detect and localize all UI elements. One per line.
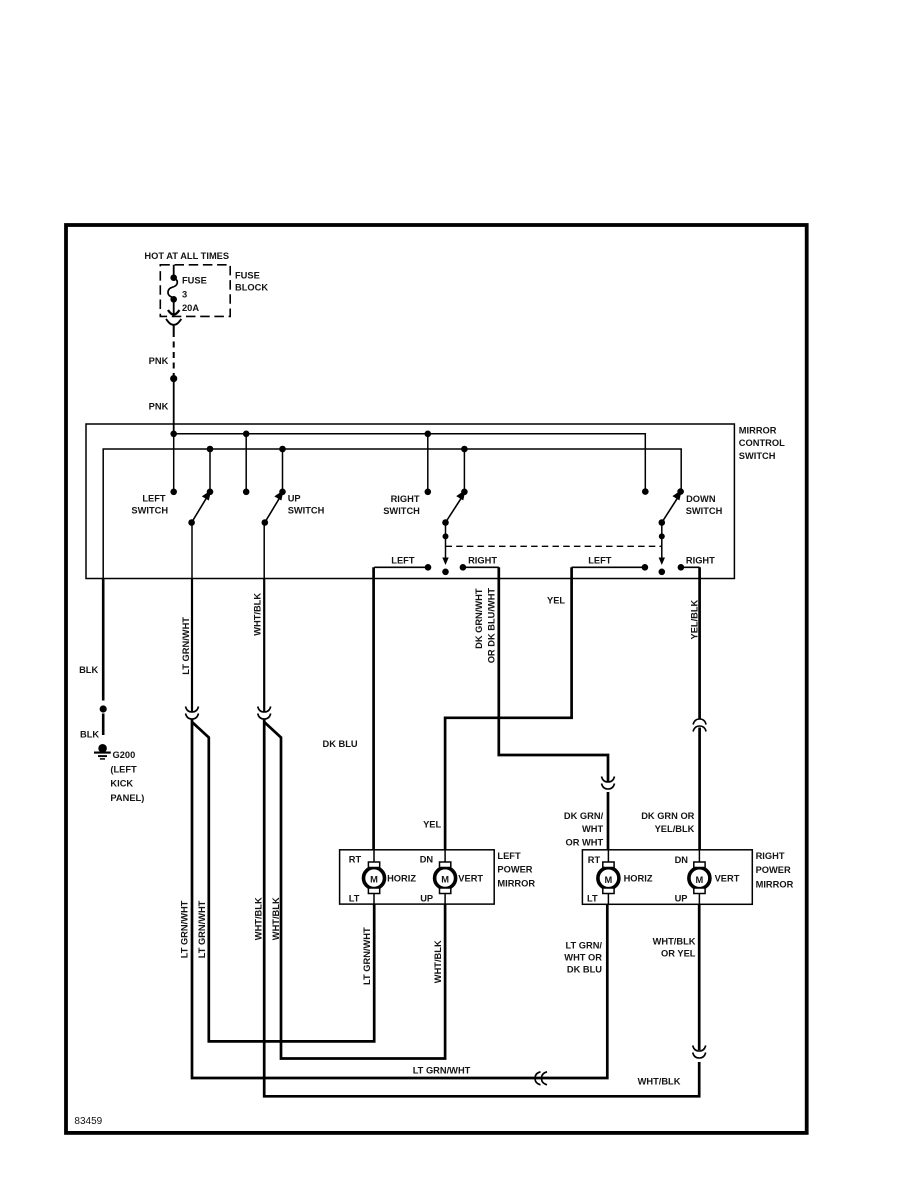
svg-text:WHT OR: WHT OR bbox=[564, 953, 602, 963]
svg-text:M: M bbox=[605, 875, 613, 885]
svg-text:LEFT: LEFT bbox=[588, 556, 612, 566]
svg-text:VERT: VERT bbox=[458, 873, 483, 883]
svg-text:BLK: BLK bbox=[80, 730, 99, 740]
svg-text:LT GRN/WHT: LT GRN/WHT bbox=[362, 927, 372, 985]
svg-text:LEFT: LEFT bbox=[391, 556, 415, 566]
svg-text:G200: G200 bbox=[113, 750, 136, 760]
svg-text:RIGHT: RIGHT bbox=[391, 494, 420, 504]
svg-text:DK GRN OR: DK GRN OR bbox=[641, 811, 694, 821]
svg-text:PNK: PNK bbox=[149, 356, 169, 366]
svg-text:YEL: YEL bbox=[547, 595, 565, 605]
svg-text:BLOCK: BLOCK bbox=[235, 283, 268, 293]
svg-text:(LEFT: (LEFT bbox=[110, 765, 137, 775]
svg-text:WHT: WHT bbox=[582, 824, 603, 834]
svg-text:WHT/BLK: WHT/BLK bbox=[433, 940, 443, 983]
svg-text:LT: LT bbox=[349, 893, 360, 903]
svg-text:RT: RT bbox=[588, 855, 601, 865]
svg-text:DK BLU: DK BLU bbox=[323, 739, 358, 749]
svg-text:WHT/BLK: WHT/BLK bbox=[254, 897, 264, 940]
svg-text:UP: UP bbox=[288, 493, 301, 503]
svg-text:LEFT: LEFT bbox=[142, 493, 166, 503]
svg-text:M: M bbox=[441, 875, 449, 885]
svg-text:DN: DN bbox=[675, 855, 689, 865]
svg-text:OR YEL: OR YEL bbox=[661, 949, 696, 959]
svg-text:DOWN: DOWN bbox=[686, 494, 716, 504]
svg-text:SWITCH: SWITCH bbox=[131, 506, 168, 516]
svg-text:20A: 20A bbox=[182, 303, 199, 313]
svg-text:MIRROR: MIRROR bbox=[739, 425, 777, 435]
svg-text:YEL/BLK: YEL/BLK bbox=[690, 599, 700, 639]
svg-text:LT: LT bbox=[587, 894, 598, 904]
svg-text:MIRROR: MIRROR bbox=[497, 878, 535, 888]
svg-text:M: M bbox=[370, 875, 378, 885]
svg-text:DK GRN/: DK GRN/ bbox=[564, 811, 604, 821]
svg-text:DK BLU: DK BLU bbox=[567, 965, 602, 975]
svg-text:VERT: VERT bbox=[715, 874, 740, 884]
svg-text:RIGHT: RIGHT bbox=[468, 556, 497, 566]
svg-text:POWER: POWER bbox=[497, 865, 532, 875]
svg-text:CONTROL: CONTROL bbox=[739, 438, 785, 448]
svg-text:LT GRN/WHT: LT GRN/WHT bbox=[181, 617, 191, 675]
svg-text:RT: RT bbox=[349, 855, 362, 865]
svg-text:OR WHT: OR WHT bbox=[565, 837, 603, 847]
svg-text:DK GRN/WHT: DK GRN/WHT bbox=[474, 588, 484, 649]
svg-text:SWITCH: SWITCH bbox=[288, 506, 325, 516]
svg-text:LT GRN/WHT: LT GRN/WHT bbox=[180, 900, 190, 958]
svg-text:YEL/BLK: YEL/BLK bbox=[655, 824, 695, 834]
svg-text:POWER: POWER bbox=[756, 865, 791, 875]
svg-text:RIGHT: RIGHT bbox=[756, 851, 785, 861]
svg-text:LT GRN/: LT GRN/ bbox=[566, 941, 603, 951]
svg-text:KICK: KICK bbox=[110, 779, 133, 789]
svg-text:RIGHT: RIGHT bbox=[686, 556, 715, 566]
svg-text:UP: UP bbox=[420, 893, 433, 903]
svg-text:WHT/BLK: WHT/BLK bbox=[271, 897, 281, 940]
svg-text:LT GRN/WHT: LT GRN/WHT bbox=[197, 900, 207, 958]
svg-text:BLK: BLK bbox=[79, 665, 98, 675]
svg-text:M: M bbox=[696, 875, 704, 885]
svg-text:LT GRN/WHT: LT GRN/WHT bbox=[413, 1066, 471, 1076]
svg-text:FUSE: FUSE bbox=[235, 270, 260, 280]
svg-text:SWITCH: SWITCH bbox=[383, 506, 420, 516]
svg-text:83459: 83459 bbox=[74, 1116, 102, 1127]
svg-text:FUSE: FUSE bbox=[182, 275, 207, 285]
svg-text:OR DK BLU/WHT: OR DK BLU/WHT bbox=[487, 588, 497, 664]
svg-text:YEL: YEL bbox=[423, 820, 441, 830]
svg-text:SWITCH: SWITCH bbox=[739, 451, 776, 461]
svg-text:WHT/BLK: WHT/BLK bbox=[638, 1077, 681, 1087]
svg-text:UP: UP bbox=[675, 894, 688, 904]
svg-text:PNK: PNK bbox=[149, 402, 169, 412]
svg-text:PANEL): PANEL) bbox=[110, 793, 144, 803]
svg-text:HOT AT ALL TIMES: HOT AT ALL TIMES bbox=[144, 251, 229, 261]
svg-text:WHT/BLK: WHT/BLK bbox=[253, 593, 263, 636]
svg-text:LEFT: LEFT bbox=[497, 851, 521, 861]
svg-text:HORIZ: HORIZ bbox=[387, 873, 416, 883]
svg-text:3: 3 bbox=[182, 289, 187, 299]
svg-text:WHT/BLK: WHT/BLK bbox=[653, 937, 696, 947]
svg-text:HORIZ: HORIZ bbox=[624, 874, 653, 884]
svg-text:MIRROR: MIRROR bbox=[756, 880, 794, 890]
svg-text:SWITCH: SWITCH bbox=[686, 506, 723, 516]
svg-text:DN: DN bbox=[420, 855, 434, 865]
